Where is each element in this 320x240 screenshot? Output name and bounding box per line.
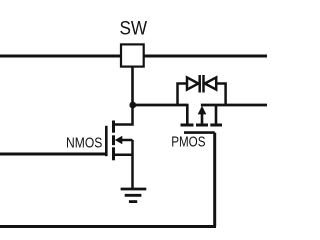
- wire: left lead: [178, 84, 188, 106]
- source stub (right): [215, 104, 218, 125]
- node: SW junction dot: [129, 102, 136, 109]
- svg-text:NMOS: NMOS: [66, 136, 102, 152]
- anode triangle: [205, 77, 216, 89]
- wire: PMOS gate down to bottom rail: [213, 133, 216, 227]
- drain lead: [114, 104, 133, 125]
- svg-text:SW: SW: [120, 19, 148, 40]
- transistor Q1 NMOS: [106, 104, 132, 189]
- wire: bottom rail: [0, 225, 216, 228]
- channel segment drain: [181, 124, 194, 127]
- body stub with arrow: [201, 113, 204, 125]
- wire: junction to PMOS drain: [133, 104, 189, 107]
- channel segment source: [112, 147, 115, 160]
- drain stub (left): [186, 104, 189, 125]
- wire: PMOS source to right edge: [201, 104, 267, 107]
- channel segment body: [112, 135, 115, 145]
- ground: [121, 189, 147, 202]
- gate bar: [184, 131, 215, 134]
- wire: NMOS gate drive from left edge: [0, 153, 107, 156]
- channel segment drain: [112, 121, 115, 133]
- gate bar: [105, 126, 108, 156]
- diode D1 (left, body-diode pair): [178, 75, 200, 105]
- wire: right lead: [216, 84, 225, 106]
- source lead: [114, 153, 133, 156]
- SW pin box: [121, 44, 144, 66]
- svg-text:PMOS: PMOS: [171, 134, 205, 150]
- transistor Q2 PMOS: [181, 104, 223, 133]
- body arrow: [115, 136, 123, 144]
- body arrow: [198, 106, 207, 115]
- channel segment source: [210, 124, 222, 127]
- anode triangle: [187, 77, 198, 89]
- wire: top rail to SW: [0, 55, 267, 58]
- diode D2 (right, body-diode pair): [204, 75, 226, 105]
- wire: SW box to junction: [131, 67, 134, 106]
- body lead: [120, 139, 133, 142]
- cathode bar: [198, 75, 201, 93]
- cathode bar: [202, 75, 205, 93]
- source/body vertical to ground: [131, 140, 134, 189]
- channel segment body: [196, 124, 208, 127]
